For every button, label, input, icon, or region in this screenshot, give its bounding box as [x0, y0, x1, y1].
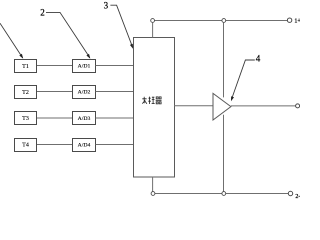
processor U1 (labelled 3) — [134, 38, 175, 178]
svg-text:T3: T3 — [22, 116, 29, 122]
arrowhead of leader 3 — [130, 44, 133, 49]
wire amplifier output — [231, 105, 296, 107]
wire top rail — [154, 20, 287, 22]
svg-text:A/D2: A/D2 — [78, 90, 91, 96]
node top-middle (open circle) — [222, 19, 226, 23]
svg-text:3: 3 — [104, 1, 109, 11]
svg-text:1+: 1+ — [294, 18, 300, 24]
wire processor to amplifier input — [174, 105, 213, 107]
sensor T1 — [15, 60, 37, 73]
svg-text:A/D1: A/D1 — [78, 64, 91, 70]
wire leader line 3 — [110, 5, 132, 47]
wire T2 to A/D2 — [37, 91, 73, 93]
node top-right terminal (open circle) — [287, 18, 291, 22]
wire from amplifier bottom down to bottom rail — [223, 115, 225, 192]
arrowhead of leader 1 — [19, 54, 23, 59]
svg-text:4: 4 — [256, 53, 261, 63]
sensor T2 — [15, 86, 37, 99]
amplifier U2 (triangle, labelled 4) — [213, 93, 231, 120]
wire A/D2 to processor — [96, 91, 134, 93]
node output terminal (open circle) — [296, 104, 300, 108]
wire stub from processor bottom to bottom rail — [152, 177, 154, 192]
wire leader line to T1 (label 1, off-canvas) — [0, 23, 23, 58]
wire T4 to A/D4 — [37, 144, 73, 146]
wire A/D4 to processor — [96, 144, 134, 146]
node top-left (open circle) — [151, 19, 155, 23]
svg-text:T2: T2 — [22, 90, 29, 96]
svg-text:A/D4: A/D4 — [78, 143, 91, 149]
sensor T3 — [15, 112, 37, 125]
arrowhead of leader 2 — [86, 54, 90, 59]
processor text glyph blob 3 — [156, 97, 162, 104]
svg-text:A/D3: A/D3 — [78, 116, 91, 122]
processor text glyph blob 1 — [142, 97, 147, 104]
wire A/D1 to processor — [96, 65, 134, 67]
processor text glyph blob 2 — [148, 97, 154, 104]
node bottom-middle (open circle) — [222, 192, 226, 196]
svg-text:2: 2 — [40, 8, 45, 18]
wire stub from top-left node to processor — [152, 22, 154, 37]
wire leader line 2 — [46, 12, 90, 57]
svg-text:T1: T1 — [22, 64, 29, 70]
a/d converter A/D1 — [73, 60, 96, 73]
a/d converter A/D4 — [73, 139, 96, 152]
svg-text:T4: T4 — [22, 143, 29, 149]
node bottom-right terminal (open circle) — [288, 191, 292, 195]
wire from top-middle node down to amplifier — [223, 22, 225, 97]
svg-text:2-: 2- — [295, 194, 300, 200]
node bottom-left (open circle) — [151, 192, 155, 196]
a/d converter A/D2 — [73, 86, 96, 99]
wire T1 to A/D1 — [37, 65, 73, 67]
arrowhead of leader 4 — [231, 96, 234, 101]
sensor T4 — [15, 139, 37, 152]
wire A/D3 to processor — [96, 117, 134, 119]
wire leader line 4 — [231, 60, 254, 100]
wire T3 to A/D3 — [37, 117, 73, 119]
wire bottom rail — [155, 193, 289, 195]
a/d converter A/D3 — [73, 112, 96, 125]
